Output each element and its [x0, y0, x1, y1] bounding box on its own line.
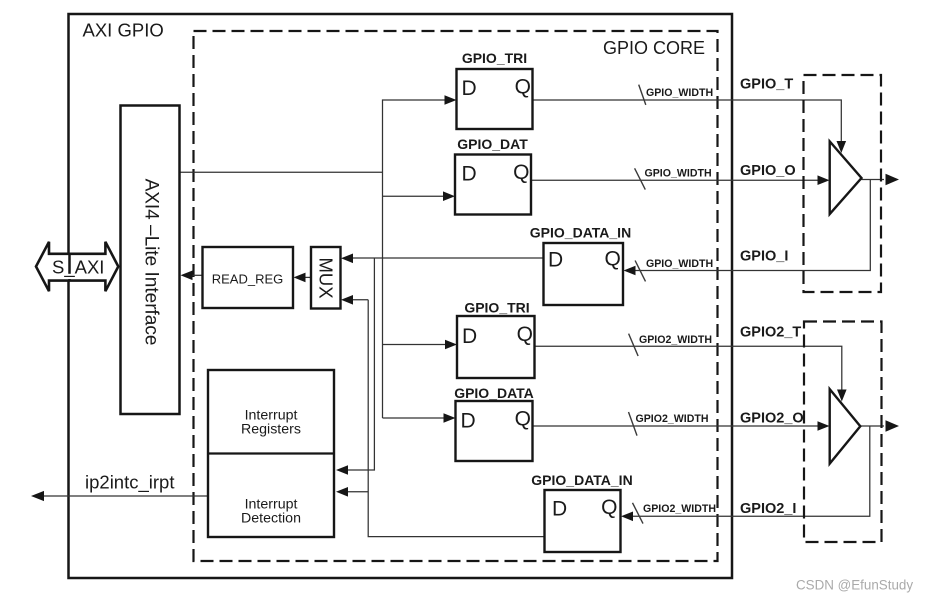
svg-text:CSDN @EfunStudy: CSDN @EfunStudy	[796, 578, 913, 593]
svg-text:D: D	[462, 163, 477, 186]
svg-text:D: D	[462, 325, 477, 348]
svg-text:Q: Q	[517, 323, 533, 346]
svg-text:GPIO_DAT: GPIO_DAT	[457, 136, 528, 152]
svg-text:Q: Q	[513, 161, 529, 184]
svg-text:D: D	[462, 77, 477, 100]
svg-text:GPIO_DATA_IN: GPIO_DATA_IN	[531, 472, 632, 488]
svg-text:GPIO_TRI: GPIO_TRI	[464, 299, 529, 315]
svg-text:GPIO2_O: GPIO2_O	[740, 411, 804, 427]
svg-text:GPIO CORE: GPIO CORE	[603, 38, 705, 58]
svg-text:GPIO_WIDTH: GPIO_WIDTH	[645, 167, 712, 179]
svg-text:Detection: Detection	[241, 510, 301, 526]
svg-text:GPIO_TRI: GPIO_TRI	[462, 50, 527, 66]
svg-text:S_AXI: S_AXI	[52, 257, 104, 279]
svg-text:GPIO2_WIDTH: GPIO2_WIDTH	[643, 503, 716, 515]
svg-text:GPIO2_WIDTH: GPIO2_WIDTH	[636, 413, 709, 425]
svg-text:GPIO_WIDTH: GPIO_WIDTH	[646, 87, 713, 99]
svg-text:GPIO_I: GPIO_I	[740, 249, 788, 265]
svg-text:AXI GPIO: AXI GPIO	[83, 20, 164, 41]
svg-text:GPIO_O: GPIO_O	[740, 163, 796, 179]
svg-text:Q: Q	[515, 408, 531, 431]
svg-text:ip2intc_irpt: ip2intc_irpt	[85, 472, 174, 494]
svg-text:GPIO_WIDTH: GPIO_WIDTH	[646, 258, 713, 270]
svg-text:GPIO2_WIDTH: GPIO2_WIDTH	[639, 334, 712, 346]
svg-text:MUX: MUX	[316, 257, 337, 298]
svg-text:D: D	[461, 410, 476, 433]
svg-text:D: D	[548, 249, 563, 272]
svg-text:GPIO2_I: GPIO2_I	[740, 501, 796, 517]
svg-text:AXI4 –Lite Interface: AXI4 –Lite Interface	[141, 179, 162, 346]
svg-text:Q: Q	[601, 496, 617, 519]
svg-text:GPIO2_T: GPIO2_T	[740, 325, 801, 341]
svg-text:GPIO_T: GPIO_T	[740, 77, 793, 93]
svg-text:Q: Q	[604, 248, 620, 271]
svg-text:GPIO_DATA: GPIO_DATA	[454, 385, 534, 401]
svg-text:Q: Q	[515, 76, 531, 99]
svg-text:GPIO_DATA_IN: GPIO_DATA_IN	[530, 225, 631, 241]
svg-text:Registers: Registers	[241, 422, 301, 438]
svg-text:D: D	[552, 498, 567, 521]
svg-text:READ_REG: READ_REG	[212, 272, 284, 287]
